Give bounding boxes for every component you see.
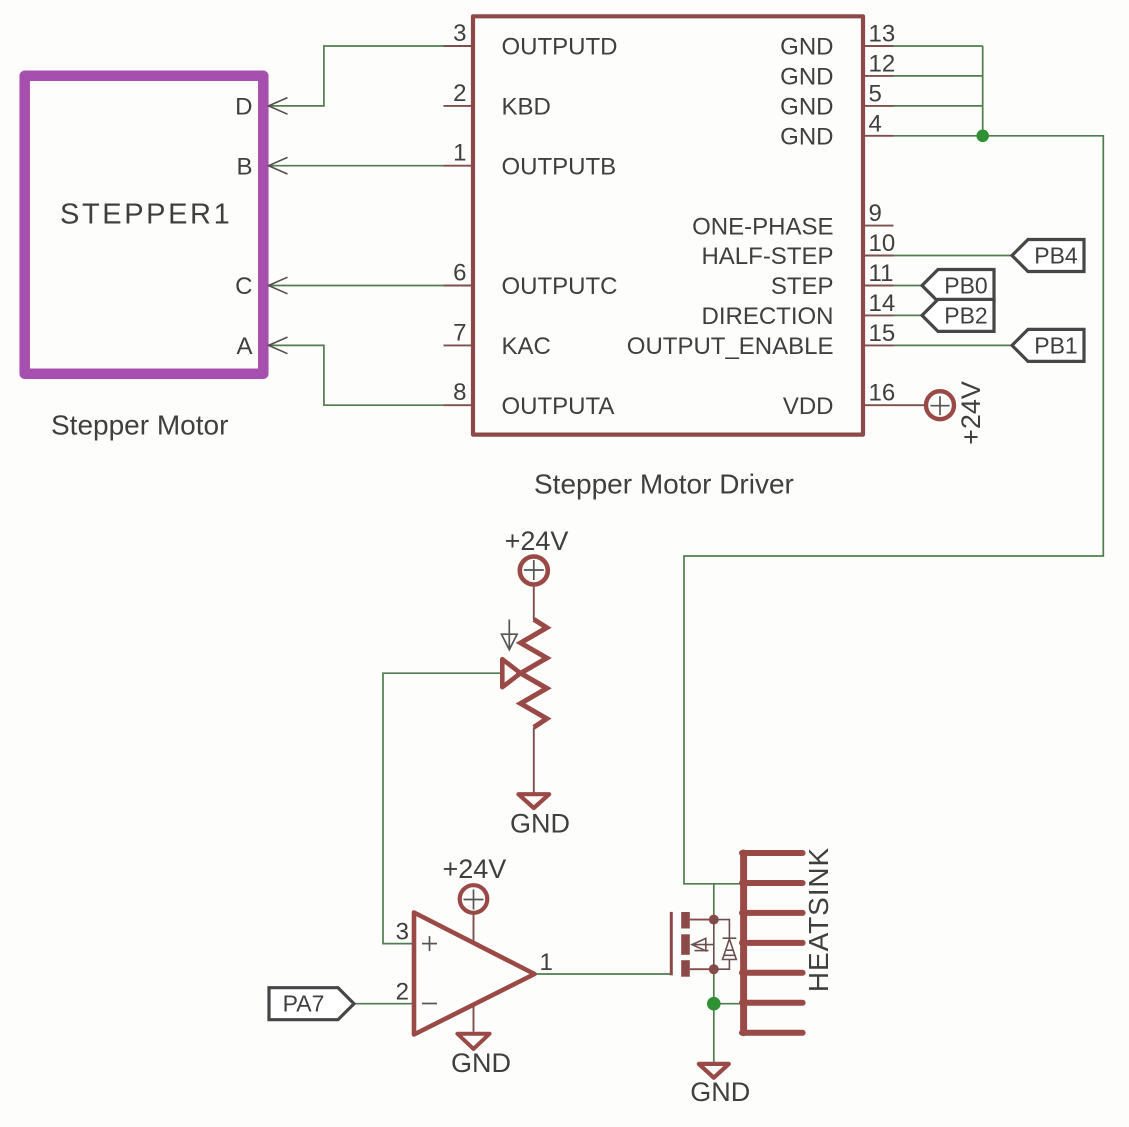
svg-text:GND: GND xyxy=(780,124,833,151)
svg-text:OUTPUTA: OUTPUTA xyxy=(502,393,615,420)
svg-text:GND: GND xyxy=(780,64,833,91)
svg-text:GND: GND xyxy=(780,94,833,121)
svg-text:Stepper Motor Driver: Stepper Motor Driver xyxy=(534,469,794,500)
svg-text:5: 5 xyxy=(869,80,882,107)
svg-text:KBD: KBD xyxy=(502,94,551,121)
svg-text:9: 9 xyxy=(869,200,882,227)
svg-text:STEPPER1: STEPPER1 xyxy=(60,199,232,231)
svg-text:OUTPUTD: OUTPUTD xyxy=(502,34,618,61)
svg-text:B: B xyxy=(236,153,252,180)
svg-text:VDD: VDD xyxy=(783,393,834,420)
svg-text:+24V: +24V xyxy=(956,381,986,445)
svg-text:7: 7 xyxy=(453,319,466,346)
svg-text:D: D xyxy=(235,94,252,121)
svg-text:11: 11 xyxy=(869,260,894,287)
svg-text:4: 4 xyxy=(869,110,882,137)
svg-text:OUTPUTC: OUTPUTC xyxy=(502,273,618,300)
svg-text:HEATSINK: HEATSINK xyxy=(803,847,834,992)
svg-text:PB4: PB4 xyxy=(1034,243,1078,269)
svg-text:KAC: KAC xyxy=(502,333,551,360)
svg-text:STEP: STEP xyxy=(771,273,834,300)
svg-text:GND: GND xyxy=(451,1048,511,1078)
svg-text:+24V: +24V xyxy=(442,854,506,884)
svg-text:8: 8 xyxy=(453,379,466,406)
svg-text:GND: GND xyxy=(690,1077,750,1107)
svg-text:2: 2 xyxy=(453,80,466,107)
svg-text:+24V: +24V xyxy=(505,526,569,556)
svg-text:14: 14 xyxy=(869,290,896,317)
svg-text:ONE-PHASE: ONE-PHASE xyxy=(692,213,833,240)
svg-text:PB2: PB2 xyxy=(944,302,987,328)
svg-text:DIRECTION: DIRECTION xyxy=(702,303,834,330)
svg-text:12: 12 xyxy=(869,50,896,77)
svg-text:PB0: PB0 xyxy=(944,273,987,299)
svg-text:3: 3 xyxy=(396,919,409,946)
svg-text:15: 15 xyxy=(869,320,896,347)
svg-text:16: 16 xyxy=(869,380,896,407)
svg-text:10: 10 xyxy=(869,230,896,257)
svg-text:6: 6 xyxy=(453,260,466,287)
svg-text:13: 13 xyxy=(869,21,896,48)
svg-text:1: 1 xyxy=(453,140,466,167)
svg-text:PA7: PA7 xyxy=(283,991,325,1017)
svg-text:A: A xyxy=(236,333,252,360)
svg-text:2: 2 xyxy=(396,979,409,1006)
svg-text:GND: GND xyxy=(780,34,833,61)
svg-text:OUTPUTB: OUTPUTB xyxy=(502,153,617,180)
svg-text:OUTPUT_ENABLE: OUTPUT_ENABLE xyxy=(627,333,834,360)
svg-text:GND: GND xyxy=(510,809,570,839)
svg-text:Stepper Motor: Stepper Motor xyxy=(51,409,228,440)
svg-text:1: 1 xyxy=(540,949,553,976)
svg-text:3: 3 xyxy=(453,20,466,47)
svg-text:C: C xyxy=(235,273,252,300)
svg-text:HALF-STEP: HALF-STEP xyxy=(701,243,833,270)
svg-text:PB1: PB1 xyxy=(1034,332,1077,358)
